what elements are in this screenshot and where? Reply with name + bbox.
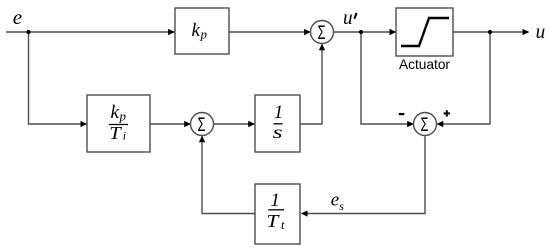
svg-text:s: s — [273, 122, 283, 142]
svg-text:t: t — [281, 218, 285, 232]
svg-text:e: e — [13, 5, 22, 29]
svg-text:1: 1 — [274, 102, 284, 123]
svg-text:Σ: Σ — [198, 115, 206, 136]
svg-text:kp: kp — [192, 20, 208, 42]
svg-text:kp: kp — [111, 102, 127, 124]
svg-text:T: T — [266, 211, 280, 231]
svg-text:u: u — [343, 7, 353, 29]
svg-text:Σ: Σ — [318, 23, 326, 44]
svg-text:s: s — [339, 199, 344, 213]
svg-text:Actuator: Actuator — [399, 56, 450, 72]
svg-text:u: u — [536, 19, 546, 43]
svg-text:i: i — [123, 128, 126, 142]
svg-text:e: e — [331, 190, 339, 211]
svg-text:T: T — [109, 123, 123, 143]
svg-text:Σ: Σ — [421, 115, 429, 136]
svg-text:1: 1 — [270, 190, 280, 211]
